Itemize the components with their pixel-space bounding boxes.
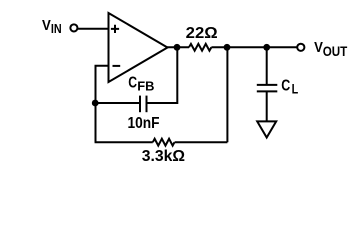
svg-text:V: V	[42, 17, 51, 34]
terminal VIN	[70, 24, 77, 31]
wire node B down to CL	[266, 47, 268, 85]
svg-text:L: L	[292, 82, 299, 97]
node A after resistor	[224, 44, 231, 51]
svg-text:3.3kΩ: 3.3kΩ	[142, 148, 186, 165]
resistor R1 22ohm	[189, 44, 211, 51]
wire junction down to bottom rail	[95, 103, 97, 142]
svg-text:22Ω: 22Ω	[186, 25, 218, 42]
wire bottom rail right segment	[175, 141, 228, 143]
wire node A down to 3.3k	[226, 47, 228, 142]
wire junction to CFB	[95, 102, 140, 104]
capacitor CL	[257, 85, 278, 92]
svg-text:C: C	[128, 75, 137, 92]
svg-text:OUT: OUT	[323, 44, 348, 59]
node B load tap	[263, 44, 270, 51]
wire node A to node B	[227, 46, 267, 48]
terminal VOUT	[297, 44, 304, 51]
wire bottom rail left segment	[95, 141, 153, 143]
ground	[257, 121, 276, 137]
wire VIN to op-amp noninverting input	[77, 28, 109, 30]
node junction at inverting feedback	[92, 100, 99, 107]
node VOUT label	[314, 39, 348, 59]
wire CFB to op-amp output node	[147, 47, 178, 103]
svg-text:IN: IN	[51, 21, 62, 36]
wire inverting input to left junction	[96, 66, 109, 103]
resistor R2 3.3kohm	[153, 139, 175, 146]
wire CL to ground	[266, 91, 268, 122]
wire node B to VOUT terminal	[267, 46, 298, 48]
svg-text:FB: FB	[137, 79, 154, 94]
label CL	[281, 77, 298, 96]
svg-text:10nF: 10nF	[128, 115, 160, 132]
svg-text:C: C	[281, 77, 290, 94]
wire op-amp output to 22ohm resistor	[167, 46, 189, 48]
node op-amp output	[174, 44, 181, 51]
wire 22ohm to node A	[211, 46, 227, 48]
op-amp U1	[109, 13, 168, 82]
svg-text:V: V	[314, 39, 323, 56]
capacitor CFB	[140, 96, 147, 113]
label CFB	[128, 75, 154, 94]
node VIN label	[42, 17, 62, 36]
